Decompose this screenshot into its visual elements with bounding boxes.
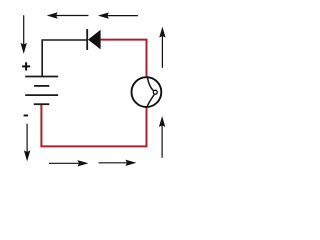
lamp L1 contact dot: [153, 90, 157, 94]
current arrow top right (pointing left): [98, 12, 138, 18]
current arrow bottom right (pointing right): [99, 160, 137, 166]
current arrow left lower (pointing down): [24, 124, 30, 162]
battery B1 plate short: [34, 85, 49, 87]
current arrow right upper (pointing up): [159, 27, 165, 68]
wire diode to lamp top (red): [101, 40, 147, 77]
current arrow right lower (pointing up): [159, 116, 165, 158]
diode D1 cathode bar: [86, 29, 88, 50]
current arrow left upper (pointing down): [21, 15, 27, 54]
current arrow top left (pointing left): [47, 12, 89, 18]
battery B1 plate long top: [25, 76, 58, 78]
battery B1 plate short bottom: [34, 103, 50, 105]
diode D1 triangle: [88, 30, 101, 50]
wire lamp bottom to battery bottom (red): [41, 104, 146, 146]
label - terminal: [24, 115, 29, 117]
battery B1 plate long: [25, 94, 58, 96]
label + terminal: [22, 62, 30, 70]
wire battery top to diode (black): [42, 40, 86, 77]
lamp L1 filament curve: [147, 77, 154, 107]
current arrow bottom left (pointing right): [49, 160, 88, 166]
lamp L1 circle: [132, 77, 162, 107]
